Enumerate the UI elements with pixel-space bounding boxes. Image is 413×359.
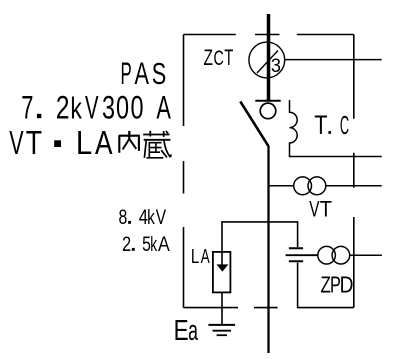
svg-text:T: T — [320, 198, 332, 222]
svg-text:A: A — [135, 55, 150, 91]
svg-text:8: 8 — [118, 205, 127, 229]
svg-text:3: 3 — [102, 89, 115, 126]
svg-text:T: T — [224, 45, 233, 70]
svg-text:k: k — [147, 206, 155, 228]
svg-text:C: C — [340, 111, 349, 140]
svg-text:V: V — [85, 88, 99, 125]
svg-text:A: A — [158, 232, 170, 256]
svg-text:0: 0 — [131, 89, 144, 126]
svg-text:k: k — [70, 90, 82, 125]
svg-text:a: a — [188, 315, 198, 348]
svg-text:E: E — [174, 315, 189, 346]
svg-text:2: 2 — [56, 90, 70, 126]
svg-text:Z: Z — [203, 46, 212, 70]
svg-text:2: 2 — [122, 232, 131, 255]
svg-text:V: V — [9, 124, 24, 161]
svg-text:C: C — [213, 45, 223, 70]
svg-text:Z: Z — [320, 273, 330, 298]
svg-text:D: D — [340, 273, 354, 298]
svg-text:V: V — [156, 205, 167, 229]
svg-text:P: P — [120, 56, 131, 91]
svg-text:A: A — [95, 125, 113, 162]
svg-text:V: V — [309, 197, 320, 221]
svg-text:3: 3 — [271, 55, 281, 77]
svg-text:L: L — [191, 245, 199, 268]
svg-text:T: T — [26, 125, 42, 161]
svg-text:7: 7 — [21, 89, 33, 125]
svg-text:T: T — [314, 111, 327, 141]
svg-text:k: k — [150, 232, 157, 255]
svg-text:L: L — [76, 124, 92, 161]
svg-text:A: A — [201, 244, 210, 268]
svg-text:S: S — [152, 56, 166, 91]
svg-text:A: A — [156, 89, 171, 126]
svg-text:0: 0 — [116, 89, 129, 126]
